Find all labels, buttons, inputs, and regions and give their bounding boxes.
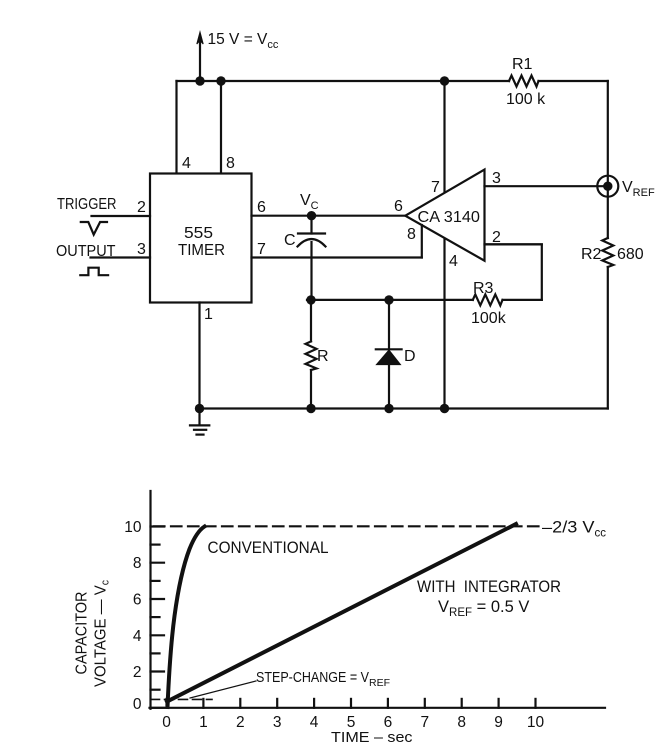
svg-text:6: 6	[133, 592, 142, 609]
svg-text:WITH INTEGRATOR: WITH INTEGRATOR	[417, 578, 561, 596]
svg-text:4: 4	[182, 155, 191, 172]
svg-text:7: 7	[257, 241, 266, 258]
x axis labels	[162, 714, 544, 731]
node junction on rail at pin8	[216, 76, 225, 85]
svg-text:555: 555	[184, 225, 213, 242]
wire: op-amp supply drop	[443, 81, 445, 409]
wire: pin 1 to ground rail	[198, 303, 200, 409]
resistor R3	[473, 294, 503, 305]
power supply arrow 15V	[197, 32, 203, 81]
svg-text:1: 1	[204, 306, 213, 323]
node junction on rail at op-amp supply	[440, 76, 449, 85]
svg-text:4: 4	[133, 628, 142, 645]
STEP-CHANGE leader line	[190, 681, 256, 698]
resistor R1	[509, 76, 539, 87]
svg-text:7: 7	[420, 714, 429, 731]
y axis minor ticks	[151, 545, 160, 690]
svg-text:R: R	[317, 348, 329, 365]
svg-text:7: 7	[431, 179, 440, 196]
integrator ramp line	[167, 524, 516, 702]
svg-text:10: 10	[527, 714, 545, 731]
svg-text:6: 6	[257, 199, 266, 216]
wire: feedback riser to pin 2	[485, 244, 542, 300]
node junction at capacitor top	[307, 211, 316, 220]
dashed 2/3 Vcc level line	[154, 525, 540, 527]
wire: right rail (R1 to Vref to R2)	[607, 81, 609, 238]
svg-text:2: 2	[236, 714, 245, 731]
resistor R2	[602, 238, 613, 267]
junction D bottom	[384, 404, 393, 413]
y axis labels	[124, 519, 142, 713]
svg-text:8: 8	[226, 155, 235, 172]
svg-text:3: 3	[273, 714, 282, 731]
wire: pin 7 of 555	[252, 256, 422, 258]
svg-text:VOLTAGE — Vc: VOLTAGE — Vc	[93, 580, 112, 687]
svg-text:3: 3	[137, 241, 146, 258]
output pulse waveform symbol	[80, 268, 108, 276]
svg-text:2: 2	[137, 199, 146, 216]
x axis ticks	[167, 699, 536, 708]
junction pin1/ground	[195, 404, 204, 413]
svg-text:D: D	[404, 348, 416, 365]
svg-text:10: 10	[124, 519, 142, 536]
svg-text:8: 8	[133, 555, 142, 572]
svg-text:8: 8	[457, 714, 466, 731]
svg-text:8: 8	[407, 226, 416, 243]
node junction capacitor bottom	[306, 295, 315, 304]
svg-text:680: 680	[617, 246, 644, 263]
diode D	[376, 300, 402, 409]
svg-text:3: 3	[492, 170, 501, 187]
svg-text:TRIGGER: TRIGGER	[57, 196, 117, 213]
555 timer label	[178, 225, 225, 259]
svg-text:R2: R2	[581, 246, 602, 263]
svg-text:CAPACITOR: CAPACITOR	[74, 592, 91, 675]
555 timer U1 box	[150, 174, 252, 303]
svg-text:TIME – sec: TIME – sec	[331, 729, 413, 746]
graph x axis	[150, 707, 606, 709]
wire: pin 6 to op-amp	[252, 215, 406, 217]
conventional charging curve	[168, 527, 205, 708]
wire: R3 to inverting feedback corner	[503, 299, 542, 301]
svg-text:4: 4	[310, 714, 319, 731]
wire: pin 4 drop	[175, 81, 177, 174]
dashed Vref level stub	[151, 698, 213, 700]
ground rail wire	[200, 407, 608, 409]
node junction on rail at arrow	[195, 76, 204, 85]
node VREF terminal circle	[597, 176, 618, 197]
svg-text:C: C	[284, 232, 296, 249]
svg-text:R3: R3	[473, 280, 494, 297]
wire: top rail right segment	[539, 80, 608, 82]
wire: R2 to ground rail	[607, 267, 609, 409]
ground symbol	[190, 409, 209, 435]
svg-text:4: 4	[449, 253, 458, 270]
wire: op-amp pin 2 stub	[485, 243, 542, 245]
trigger pulse waveform symbol	[81, 222, 107, 235]
wire: output	[91, 256, 151, 258]
wire: op-amp output pin 3 to Vref	[485, 185, 608, 187]
wire: trigger input	[92, 215, 151, 217]
svg-text:0: 0	[162, 714, 171, 731]
svg-text:1: 1	[199, 714, 208, 731]
junction supply drop bottom	[440, 404, 449, 413]
svg-text:0: 0	[133, 696, 142, 713]
svg-text:TIMER: TIMER	[178, 242, 225, 259]
wire: pin 8 drop	[220, 81, 222, 174]
node junction diode top	[384, 295, 393, 304]
resistor R	[306, 300, 317, 409]
y axis major ticks	[151, 527, 165, 708]
wire: top rail left segment	[177, 80, 510, 82]
svg-text:100k: 100k	[471, 310, 507, 327]
svg-text:6: 6	[394, 198, 403, 215]
junction R bottom	[306, 404, 315, 413]
svg-text:CA 3140: CA 3140	[418, 209, 481, 226]
graph y axis	[149, 491, 151, 709]
svg-text:2: 2	[133, 664, 142, 681]
capacitor C	[298, 216, 326, 300]
axis label CAPACITOR VOLTAGE - Vc (rotated)	[74, 580, 112, 687]
wire: 555 pin7 riser to op-amp pin 8	[421, 225, 423, 258]
wire: summing node horizontal	[307, 299, 473, 301]
svg-text:R1: R1	[512, 56, 533, 73]
op-amp U1 CA3140 triangle	[405, 170, 484, 261]
svg-text:CONVENTIONAL: CONVENTIONAL	[208, 539, 329, 557]
svg-text:100 k: 100 k	[506, 91, 546, 108]
svg-text:9: 9	[494, 714, 503, 731]
